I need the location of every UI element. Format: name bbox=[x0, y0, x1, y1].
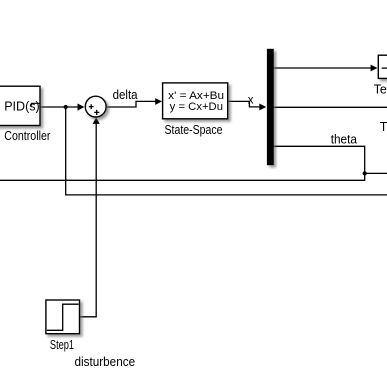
wire: demux output 1 to scope block bbox=[274, 67, 372, 69]
wire: state-space output x to demux bbox=[228, 101, 260, 107]
svg-text:Step1: Step1 bbox=[50, 337, 74, 352]
wire: disturbance step up to sum bbox=[80, 124, 97, 317]
wire: branch from theta junction to right edge bbox=[365, 172, 387, 174]
block: PID controller bbox=[0, 86, 40, 125]
node: junction dot on PID output wire bbox=[64, 105, 68, 109]
svg-text:y = Cx+Du: y = Cx+Du bbox=[170, 101, 223, 113]
svg-text:disturbence: disturbence bbox=[75, 354, 136, 369]
svg-text:theta: theta bbox=[331, 131, 358, 146]
svg-text:Th: Th bbox=[380, 120, 387, 134]
svg-text:x' = Ax+Bu: x' = Ax+Bu bbox=[168, 90, 224, 102]
wire: PID output to sum bbox=[39, 106, 78, 108]
wire: tap from PID output down and right to edge (net B) bbox=[66, 107, 387, 195]
wire: feedback line theta to left edge (net A) bbox=[0, 146, 365, 180]
block: demux bbox=[267, 49, 274, 165]
block: step1 source bbox=[46, 300, 80, 334]
wire: demux output 2 to right edge bbox=[274, 106, 387, 108]
wire: sum to state-space (delta) bbox=[107, 101, 156, 107]
svg-text:x: x bbox=[248, 94, 254, 106]
svg-text:PID(s): PID(s) bbox=[4, 99, 40, 114]
node: junction dot on theta wire bbox=[363, 171, 367, 175]
block: state-space bbox=[163, 83, 228, 119]
block: sum junction bbox=[85, 96, 106, 117]
svg-text:State-Space: State-Space bbox=[165, 122, 223, 137]
svg-text:Controller: Controller bbox=[4, 128, 51, 143]
svg-text:delta: delta bbox=[113, 87, 139, 102]
svg-text:Tens: Tens bbox=[374, 83, 387, 97]
block: scope Te (clipped at right edge) bbox=[378, 55, 387, 78]
